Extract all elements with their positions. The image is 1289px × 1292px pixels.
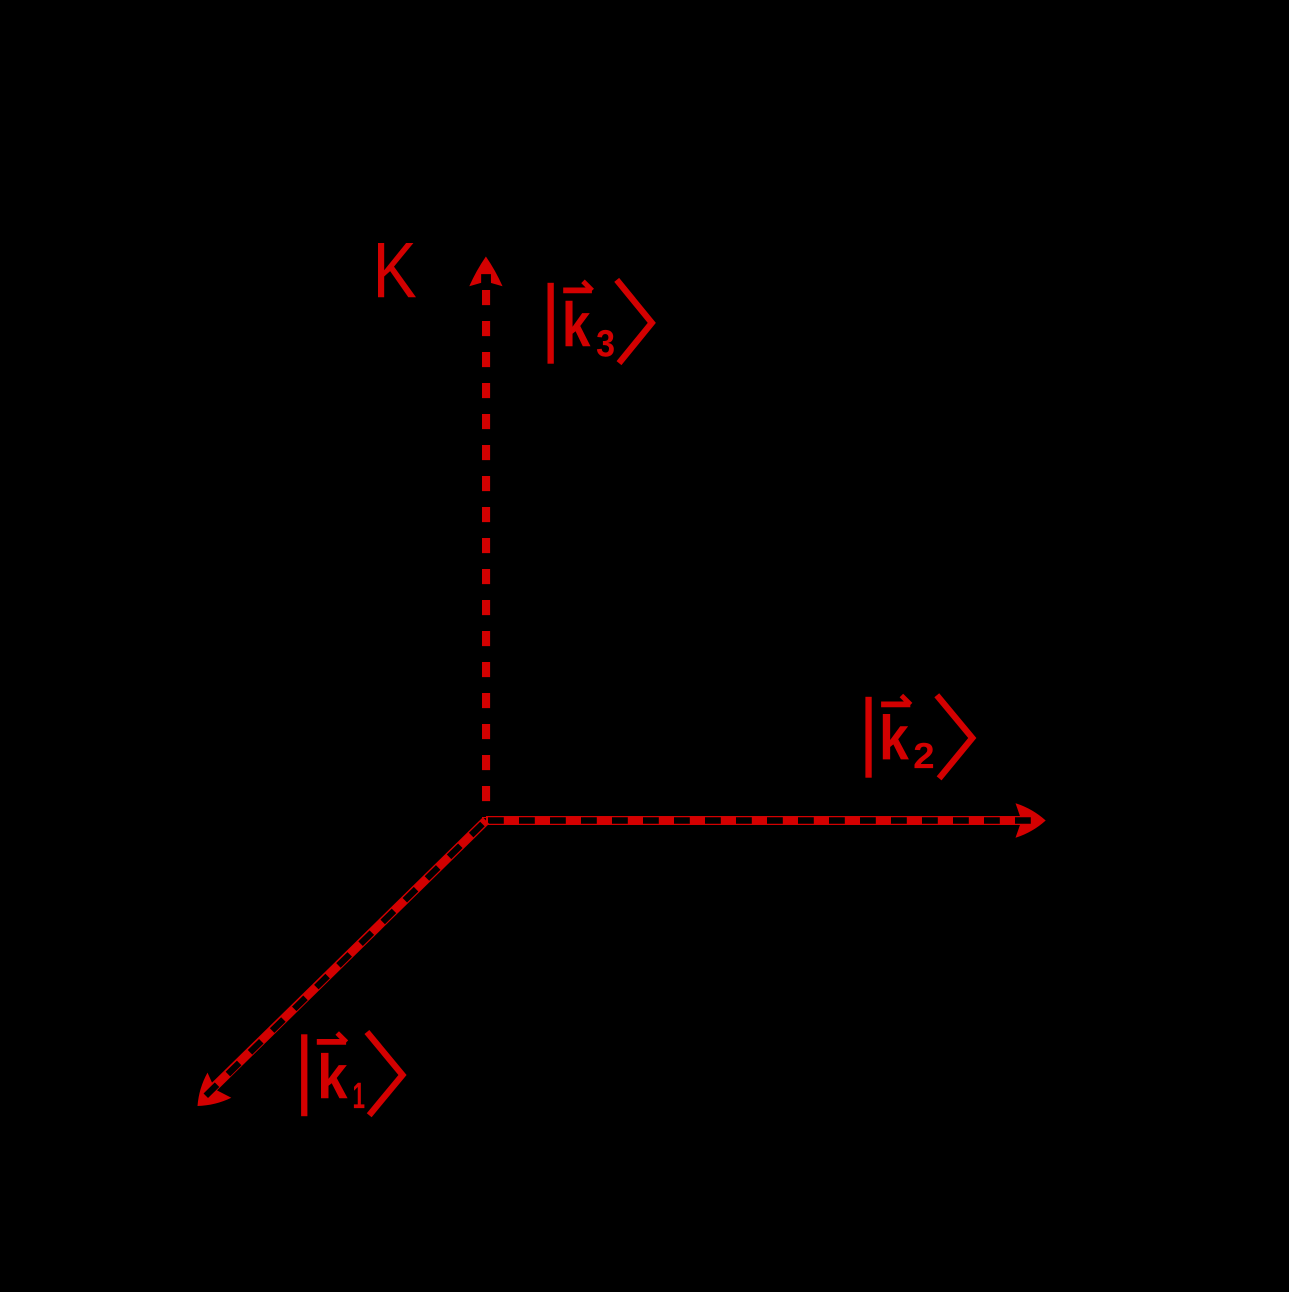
ket angle bracket of k1 <box>367 1032 403 1115</box>
arrowhead K-axis up <box>469 257 502 287</box>
ket bar | of k1 <box>301 1034 307 1116</box>
subscript 2 <box>915 743 934 768</box>
ket angle bracket of k3 <box>617 280 652 363</box>
node |k3> ket label <box>548 280 652 364</box>
vector barb over k1 <box>337 1033 346 1042</box>
node |k2> ket label <box>865 695 972 778</box>
wire K-axis vertical black dash overlay <box>481 270 491 817</box>
ket angle bracket of k2 <box>937 695 973 778</box>
node |k1> ket label <box>301 1032 402 1116</box>
wire k1-axis diagonal shaft (red solid) <box>213 821 486 1089</box>
vector bar over k3 <box>563 287 592 293</box>
wire k2-axis horizontal shaft (red solid) <box>486 816 1022 825</box>
ket bar | of k3 <box>548 283 554 364</box>
glyph k of k3 <box>566 301 591 346</box>
wire k1-axis diagonal black dash overlay <box>204 821 486 1098</box>
label K (axis name) <box>378 243 416 297</box>
arrowhead k2-axis right <box>1015 803 1045 838</box>
wire K-axis vertical shaft (red solid) <box>482 284 490 818</box>
arrowhead k1-axis down-left <box>186 1073 232 1119</box>
glyph k of k2 <box>883 714 909 759</box>
wire k2-axis horizontal black dash overlay <box>486 817 1036 823</box>
vector barb over k3 <box>583 281 592 290</box>
vector barb over k2 <box>901 696 910 705</box>
subscript 1 <box>354 1083 365 1108</box>
vector bar over k2 <box>881 702 910 708</box>
ket bar | of k2 <box>865 697 871 778</box>
vector bar over k1 <box>317 1039 346 1045</box>
subscript 3 <box>597 330 614 357</box>
glyph k of k1 <box>321 1053 348 1098</box>
